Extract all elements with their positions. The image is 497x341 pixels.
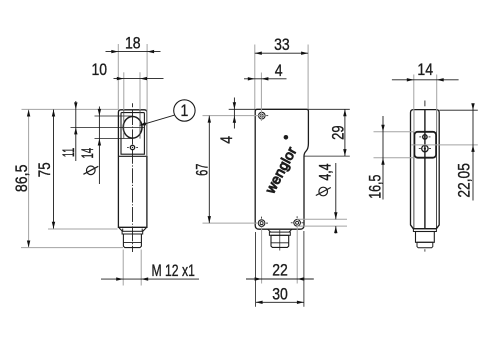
dim 22,05 [472, 104, 474, 201]
screw hole top-left [259, 112, 266, 119]
ext phi4,4 top/bottom of hole [297, 218, 347, 220]
pot cover rounded square [414, 132, 436, 158]
svg-text:4,4: 4,4 [316, 163, 334, 181]
balloon 1 [139, 100, 196, 127]
dim 29 [344, 109, 346, 156]
svg-text:14: 14 [417, 61, 433, 79]
right view texts [366, 61, 474, 199]
dim 4 left [233, 98, 235, 129]
ext line 75 bottom [48, 228, 118, 230]
dim 75 [53, 110, 55, 229]
ext 4 (to hole) [260, 73, 262, 122]
connector back: neck [413, 229, 436, 232]
ext line 18 left [117, 44, 119, 109]
svg-text:16,5: 16,5 [366, 175, 384, 199]
dim 14 [392, 79, 459, 81]
face plate inner rectangle [121, 113, 144, 155]
svg-text:18: 18 [125, 34, 141, 52]
svg-text:wenglor: wenglor [261, 144, 299, 197]
center seam line [424, 110, 426, 229]
svg-text:33: 33 [274, 36, 290, 54]
svg-text:67: 67 [193, 164, 211, 176]
ext 29 top (from corner) [308, 108, 349, 110]
indicator dot [284, 135, 289, 140]
top extension line to the left [22, 108, 119, 110]
svg-text:29: 29 [330, 125, 348, 139]
svg-text:75: 75 [36, 162, 54, 177]
dim phi14 [98, 107, 100, 185]
hole center marks [255, 222, 257, 224]
face edge lines [413, 110, 415, 228]
ext line 18 right [146, 44, 148, 156]
dim 4 top [244, 78, 287, 80]
thread relief line [123, 242, 141, 244]
connector: chamfer left [119, 228, 123, 231]
front view dimensions [21, 44, 199, 286]
screw hole bottom-right [294, 220, 301, 227]
connector: chamfer right [143, 228, 147, 231]
lens ellipse [123, 117, 142, 139]
dim 16,5 [382, 116, 384, 200]
ext 33 left / right [254, 45, 256, 110]
lens horizontal centerline [71, 126, 145, 128]
centerline tick below [424, 249, 426, 251]
screw hole bottom-left [258, 220, 265, 227]
wenglor logo [261, 144, 299, 197]
centerline tick above [424, 101, 426, 107]
dim 10 [114, 78, 164, 80]
connector side: trapezoid flange [268, 229, 292, 232]
middle view texts [193, 36, 348, 304]
svg-text:30: 30 [272, 285, 288, 303]
dim 86,5 [28, 110, 30, 248]
svg-text:4: 4 [218, 135, 236, 143]
ext bottom-left hole center (gray) [203, 222, 259, 224]
bottom chamfer lines [411, 225, 414, 229]
upper circle [423, 135, 427, 139]
phi symbol of 4,4 [319, 187, 328, 196]
svg-text:11: 11 [60, 148, 78, 157]
dim M12 [101, 278, 199, 280]
centerline tick above head [132, 103, 134, 107]
bottom piece [417, 242, 433, 248]
ext hole center line (gray) [203, 115, 266, 117]
body outline with step [255, 109, 308, 229]
ext line 86,5 bottom [21, 247, 123, 249]
connector M12 barrel [123, 234, 141, 248]
phi symbol of phi14 [87, 166, 96, 175]
ext line 10 right [139, 72, 141, 110]
body outline [411, 110, 440, 229]
svg-text:22,05: 22,05 [455, 163, 473, 198]
ext 22,05 top (black from corner) [439, 109, 477, 111]
svg-text:14: 14 [79, 148, 97, 159]
mid connector centerline [279, 230, 281, 251]
dim phi4,4 [335, 163, 337, 219]
body outline [118, 110, 146, 228]
ext 14 left/right [413, 75, 415, 132]
svg-text:M 12 x1: M 12 x1 [152, 262, 195, 280]
ext lines M12 [122, 250, 124, 286]
svg-text:22: 22 [272, 262, 288, 280]
lens bottom extension line [95, 138, 134, 140]
dim 30 [256, 301, 304, 303]
vertical centerline through front view [132, 110, 134, 252]
dim 33 [255, 52, 308, 54]
LED center marks [127, 147, 129, 149]
front view dimension texts [13, 34, 195, 280]
svg-text:86,5: 86,5 [13, 164, 31, 192]
svg-text:10: 10 [92, 61, 108, 79]
connector neck sides [122, 229, 124, 232]
lens top extension line [95, 115, 134, 117]
ext left top edge (black) [229, 108, 256, 110]
LED dot [130, 145, 134, 149]
dim 22 [246, 278, 314, 280]
circle center marks [419, 136, 421, 138]
ext 16,5 (square top/bottom) [374, 131, 415, 133]
ext 22,05 bottom (gray across) [412, 144, 478, 146]
ext 30 (black, body edges down) [255, 232, 257, 307]
svg-text:1: 1 [181, 102, 189, 120]
connector collar [122, 231, 143, 234]
ext 22 (gray, from holes down) [261, 227, 263, 284]
ext line 10 left [123, 72, 125, 110]
dim 18 [106, 51, 161, 53]
dim 11 [75, 101, 77, 161]
lower circle [422, 145, 428, 151]
barrel [416, 232, 435, 243]
dim 67 [208, 116, 210, 223]
svg-text:4: 4 [275, 62, 283, 80]
ext 29 bottom (step line) [304, 155, 350, 157]
right view dimensions [374, 75, 478, 201]
face plate bottom line [119, 155, 146, 157]
middle view dimensions [203, 45, 350, 307]
